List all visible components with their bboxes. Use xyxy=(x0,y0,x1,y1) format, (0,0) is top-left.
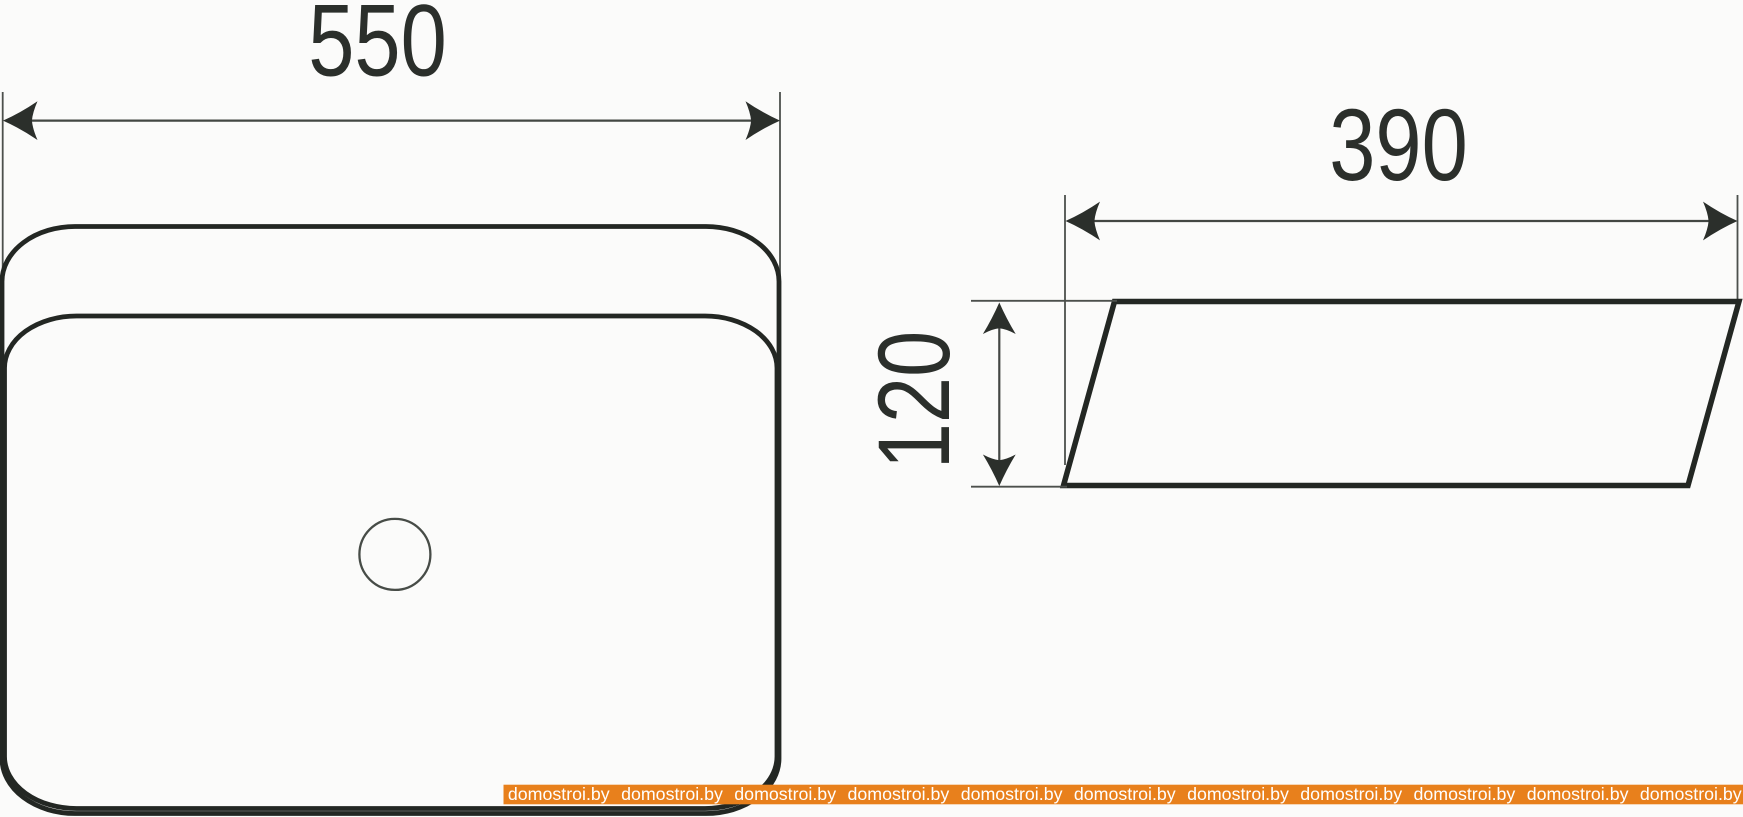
svg-text:domostroi.by: domostroi.by xyxy=(848,784,950,804)
watermark strip xyxy=(504,785,1743,805)
arrowhead up (120) xyxy=(983,303,1016,335)
svg-text:120: 120 xyxy=(857,331,971,470)
arrowhead left (550) xyxy=(3,101,38,140)
svg-text:domostroi.by: domostroi.by xyxy=(1640,784,1742,804)
label 550 xyxy=(308,0,447,97)
svg-text:domostroi.by: domostroi.by xyxy=(1414,784,1516,804)
label 120 (rotated) xyxy=(857,331,971,470)
svg-text:domostroi.by: domostroi.by xyxy=(1527,784,1629,804)
extension line top (120) xyxy=(971,300,1117,302)
extension line left (550) xyxy=(2,92,4,310)
outer rim rounded rect xyxy=(2,227,779,814)
arrowhead right (550) xyxy=(746,101,781,140)
watermark text xyxy=(508,784,1742,804)
dimension line 550 xyxy=(6,119,777,121)
svg-text:domostroi.by: domostroi.by xyxy=(1300,784,1402,804)
arrowhead left (390) xyxy=(1066,202,1101,241)
inner rim rounded rect xyxy=(5,316,778,809)
extension line bottom (120) xyxy=(971,486,1067,488)
arrowhead right (390) xyxy=(1703,202,1738,241)
drain circle xyxy=(359,519,430,590)
extension line right (390) xyxy=(1737,195,1739,302)
label 390 xyxy=(1329,88,1468,202)
svg-text:domostroi.by: domostroi.by xyxy=(621,784,723,804)
svg-text:domostroi.by: domostroi.by xyxy=(1074,784,1176,804)
dimension line 120 (vertical) xyxy=(998,306,1000,482)
arrowhead down (120) xyxy=(983,455,1016,487)
svg-text:390: 390 xyxy=(1329,88,1468,202)
svg-text:domostroi.by: domostroi.by xyxy=(734,784,836,804)
svg-text:550: 550 xyxy=(308,0,447,97)
svg-text:domostroi.by: domostroi.by xyxy=(508,784,610,804)
extension line left (390) xyxy=(1064,195,1066,465)
svg-text:domostroi.by: domostroi.by xyxy=(961,784,1063,804)
dimension line 390 xyxy=(1068,220,1734,222)
svg-text:domostroi.by: domostroi.by xyxy=(1187,784,1289,804)
side profile parallelogram xyxy=(1064,302,1740,486)
extension line right (550) xyxy=(779,92,781,375)
